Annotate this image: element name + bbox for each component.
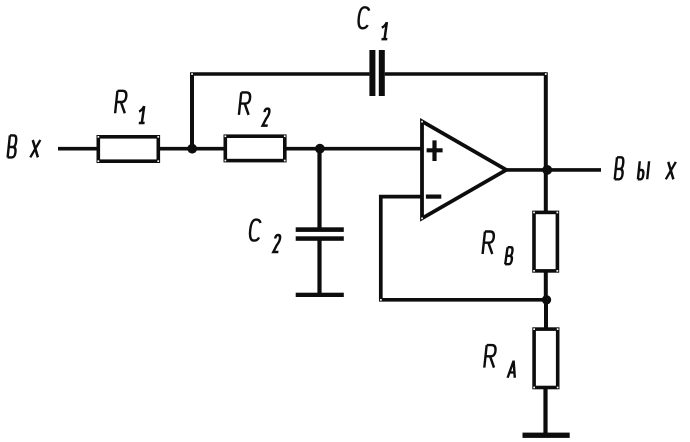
wire R2 to op-amp non-inverting input: [285, 147, 422, 151]
wire node C to RA: [544, 300, 548, 330]
op-amp U1: [422, 121, 506, 218]
wire top rail left of C1: [190, 72, 369, 76]
label R2: [239, 92, 270, 125]
label C2: [249, 220, 281, 252]
resistor R2: [225, 136, 284, 160]
label R1: [115, 91, 147, 123]
wire right vertical from top rail to output node: [544, 72, 548, 212]
resistor RA: [534, 329, 558, 387]
op-amp plus marking: [427, 140, 443, 161]
wire op-amp output: [504, 168, 601, 172]
capacitor C1: [369, 50, 384, 96]
label C1: [358, 7, 390, 39]
capacitor C2: [296, 227, 344, 241]
label RB: [483, 232, 514, 265]
resistor R1: [98, 137, 158, 161]
wire C2 to ground: [317, 241, 321, 295]
ground bar bottom: [523, 433, 570, 438]
wire node B down to C2: [317, 149, 321, 229]
wire top rail right of C1: [385, 72, 546, 76]
op-amp minus marking: [426, 195, 441, 199]
label RA: [484, 345, 517, 378]
corner vertex dots (white editor handles): [98, 73, 559, 388]
output node junction dot: [542, 165, 552, 175]
label Vx input: [8, 135, 41, 157]
ground bar under C2: [296, 293, 344, 297]
wire R1 to node A: [160, 147, 226, 151]
resistor RB: [534, 212, 557, 271]
feedback wire to inverting input: [381, 197, 547, 300]
node C junction dot: [542, 295, 551, 304]
wire input Vx: [58, 147, 98, 151]
wire node A vertical riser: [190, 74, 194, 150]
wire RA to ground: [543, 388, 547, 433]
node B junction dot: [315, 144, 325, 154]
label Vyx output: [615, 157, 676, 179]
wire RB to node C: [544, 271, 548, 300]
node A junction dot: [187, 144, 197, 154]
